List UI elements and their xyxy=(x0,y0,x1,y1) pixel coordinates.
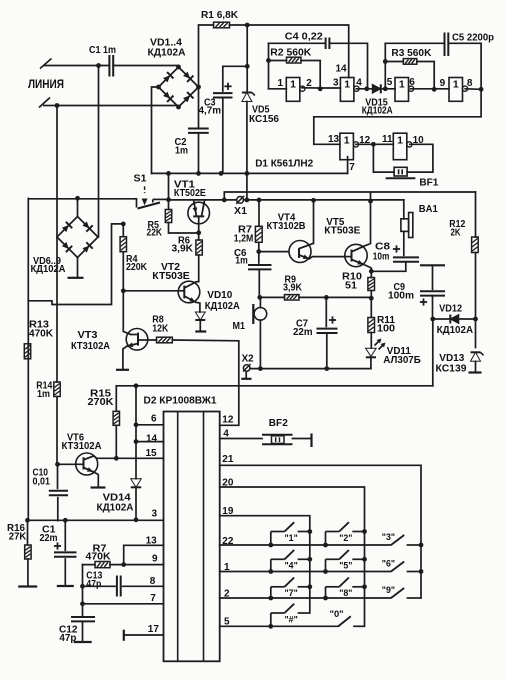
svg-text:1: 1 xyxy=(453,79,459,91)
junction G3 in xyxy=(383,86,388,91)
junction rail/VD5 xyxy=(245,171,250,176)
junction R16 xyxy=(25,518,30,523)
svg-text:6: 6 xyxy=(151,414,157,425)
node bridge top xyxy=(176,65,181,70)
svg-text:BF2: BF2 xyxy=(269,418,288,429)
junction VT1 base/R5/R6 xyxy=(196,230,201,235)
wire: VD13 to ground xyxy=(475,361,477,372)
wire: mic bottom xyxy=(259,320,261,369)
wire: BA1 to C8 xyxy=(403,231,405,255)
svg-text:КТ502Е: КТ502Е xyxy=(174,188,206,199)
wire: to BF1 left xyxy=(373,144,394,172)
svg-text:27K: 27K xyxy=(9,532,27,543)
diode VD15 xyxy=(356,88,372,90)
wire: pin 20 to column 2 xyxy=(220,487,365,626)
wire: to C3 top xyxy=(223,66,247,91)
svg-text:КТ3102А: КТ3102А xyxy=(62,441,103,452)
wire: R7 to VT4 base node xyxy=(258,242,260,251)
key switch 5 row junction xyxy=(323,569,328,574)
BF2 symbol xyxy=(262,435,293,444)
wire: C7 bottom xyxy=(326,333,328,369)
VD6..9 diamond xyxy=(57,217,98,258)
svg-text:D1 К561ЛН2: D1 К561ЛН2 xyxy=(255,159,313,170)
wire: VT2 base xyxy=(123,290,178,292)
svg-text:D2 КР1008ВЖ1: D2 КР1008ВЖ1 xyxy=(144,396,217,407)
svg-text:ЛИНИЯ: ЛИНИЯ xyxy=(28,77,64,91)
svg-text:7: 7 xyxy=(150,593,156,604)
VD11 symbol xyxy=(366,339,386,358)
wire: C5 feedback xyxy=(385,43,481,89)
inverter D1.4 xyxy=(449,78,468,102)
wire: upper line through C1 to bridge top xyxy=(99,66,179,68)
resistor R13 xyxy=(24,344,30,359)
svg-text:VD13: VD13 xyxy=(439,353,464,364)
wire: D1 pin7 ground stub xyxy=(347,157,349,174)
key switch 8 column junction xyxy=(362,584,367,589)
svg-text:470K: 470K xyxy=(86,552,112,563)
junction S1/VT1 xyxy=(166,197,171,202)
diode VD14 xyxy=(131,479,142,488)
wire: into G1 xyxy=(269,88,287,90)
svg-text:11: 11 xyxy=(382,134,393,145)
wire: S1 junction to rail xyxy=(168,173,170,199)
resistor R9 xyxy=(285,295,300,300)
svg-text:"9": "9" xyxy=(382,585,395,595)
wire: R6 to VT2 collector xyxy=(198,233,200,282)
key switch 3 column junction xyxy=(419,543,424,548)
wire: A to BA1 xyxy=(403,200,405,219)
wire: mic bias row xyxy=(260,296,372,298)
wire: G3 input riser xyxy=(384,43,386,89)
terminal bar pin 17 xyxy=(123,630,125,641)
wire: VT4 collector riser xyxy=(313,200,315,243)
svg-text:КТ503Е: КТ503Е xyxy=(152,271,190,282)
wire: bridge2 left node down to R14 xyxy=(56,237,58,382)
key switch # switch xyxy=(271,604,310,627)
svg-text:КД102А: КД102А xyxy=(97,503,135,514)
junction VT4 collector / wire A xyxy=(311,198,316,203)
inverter D1.5 xyxy=(340,133,359,160)
BF1 symbol xyxy=(386,167,416,178)
junction pin3/VD14 xyxy=(134,517,139,522)
inverter D1.3 xyxy=(395,78,414,102)
wire: VD5 to rail xyxy=(246,102,248,174)
junction R4/VT2 base xyxy=(121,288,126,293)
resistor R14 xyxy=(54,382,60,397)
terminal X1 xyxy=(236,196,244,204)
capacitor C9 (electrolytic) xyxy=(420,291,445,305)
svg-text:R1 6,8K: R1 6,8K xyxy=(201,10,239,21)
svg-text:C5 2200p: C5 2200p xyxy=(452,33,494,44)
wire: mic top xyxy=(259,297,261,307)
wire: R4 to VT2 base junction xyxy=(122,252,124,291)
terminal: line input lower xyxy=(39,98,57,108)
wire: rail to wire A riser xyxy=(246,173,248,200)
capacitor C12 xyxy=(71,617,95,621)
svg-text:4,7m: 4,7m xyxy=(199,106,222,117)
svg-text:220K: 220K xyxy=(126,262,148,273)
svg-text:8: 8 xyxy=(467,78,473,89)
key switch 2 switch xyxy=(326,522,365,545)
wire: G1 input riser xyxy=(268,43,270,89)
capacitor C2 xyxy=(188,129,209,133)
junction C4 right / G2 out xyxy=(364,86,369,91)
key switch 7 row junction xyxy=(268,596,273,601)
wire: R16 to ground xyxy=(27,559,29,587)
svg-text:VD10: VD10 xyxy=(207,290,232,301)
wire: G1 out to G2 in xyxy=(302,87,340,89)
svg-text:3,9K: 3,9K xyxy=(172,244,194,255)
svg-text:BA1: BA1 xyxy=(419,204,438,215)
junction upper line xyxy=(96,63,101,68)
key switch 4 switch xyxy=(271,550,310,572)
key switch 7 column junction xyxy=(307,584,312,589)
wire: pin 8 row xyxy=(83,585,164,587)
capacitor C5 xyxy=(445,33,449,57)
resistor R3 xyxy=(403,59,417,65)
svg-text:R3 560K: R3 560K xyxy=(391,48,432,59)
X2 symbol xyxy=(241,364,251,379)
wire: X2 ground row xyxy=(250,368,371,370)
wire: pin 4 to BF2 xyxy=(220,438,262,440)
wire: lower line to bridge bottom... actually to bridge xyxy=(57,105,179,107)
terminal bar above C9 xyxy=(420,264,445,266)
junction pin14 xyxy=(134,439,139,444)
junction R9/R10/R11 xyxy=(369,296,374,301)
M1 symbol xyxy=(253,304,266,324)
junction long wire / D2 left pins riser xyxy=(134,383,139,388)
svg-text:X1: X1 xyxy=(234,206,247,217)
svg-text:17: 17 xyxy=(148,624,160,635)
ground: VT3 emitter xyxy=(116,369,129,371)
wire: pin 2 row xyxy=(220,597,391,599)
key switch 1 row junction xyxy=(268,543,273,548)
wire: pin 1 row xyxy=(220,571,391,573)
svg-text:9: 9 xyxy=(440,78,446,89)
junction R7/C6/VT4 xyxy=(256,249,261,254)
D2 body xyxy=(164,412,220,662)
svg-text:КД102А: КД102А xyxy=(148,48,187,59)
svg-text:1m: 1m xyxy=(175,146,188,157)
wire: S1 left branch to R4 top xyxy=(28,224,123,305)
wire: C12 to ground xyxy=(82,622,84,643)
resistor R7 (470K) xyxy=(95,562,110,568)
wire: C9 bottom to VD12 node xyxy=(432,296,434,319)
svg-text:6: 6 xyxy=(409,77,415,88)
wire: R12 chain xyxy=(475,192,477,319)
diode VD12 xyxy=(450,315,459,324)
svg-text:1: 1 xyxy=(290,79,296,91)
junction pin6 xyxy=(134,422,139,427)
wire: R7 left riser xyxy=(82,565,84,617)
node bridge right xyxy=(196,85,201,90)
S1 symbol xyxy=(137,186,169,208)
svg-text:9: 9 xyxy=(152,554,158,565)
key switch 8 switch xyxy=(326,578,365,599)
wire: bridge left node to common rail xyxy=(152,87,159,173)
svg-text:X2: X2 xyxy=(242,354,254,365)
resistor R16 xyxy=(27,520,29,545)
wire: R8 to D2 pin12 xyxy=(148,340,239,425)
svg-text:0,01: 0,01 xyxy=(33,477,51,488)
svg-text:"4": "4" xyxy=(285,561,298,571)
capacitor C8 (electrolytic) xyxy=(393,245,419,261)
bridge VD1..4 diamond xyxy=(159,67,199,107)
junction R3 left xyxy=(383,59,388,64)
resistor R5 xyxy=(165,210,171,223)
wire: VT3 emitter down xyxy=(123,346,127,370)
key switch 4 row junction xyxy=(268,569,273,574)
resistor R11 xyxy=(368,318,375,333)
wire: R10 to R11 xyxy=(370,291,372,318)
wire: VD6..9 top to S1 wire xyxy=(77,198,79,216)
junction C7 top xyxy=(324,295,329,300)
svg-text:13: 13 xyxy=(328,134,340,145)
wire: VD10 to ground xyxy=(199,320,201,332)
svg-text:"0": "0" xyxy=(330,608,344,619)
svg-text:100: 100 xyxy=(377,324,395,335)
wire: BF1 right to G6 out xyxy=(407,144,433,172)
capacitor C1 xyxy=(109,55,113,77)
wire: R14 to VT6 base node xyxy=(56,397,58,465)
wire: C8 bottom to emitter node xyxy=(371,262,406,272)
wire: R4 line to VT3 collector xyxy=(123,291,130,335)
inverter D1.6 xyxy=(393,133,412,160)
svg-text:АЛ307Б: АЛ307Б xyxy=(383,355,421,366)
wire: VD14 to pin3 wire xyxy=(135,487,137,520)
key 0 switch xyxy=(338,616,364,626)
wire: VT2 collector hook xyxy=(196,281,199,283)
ground: VD10 xyxy=(195,330,206,332)
key switch # row junction xyxy=(268,624,273,629)
wire: pin 21 to column 3 xyxy=(220,465,421,598)
VT4 symbol xyxy=(289,241,314,263)
terminal bar BF2 xyxy=(310,434,312,448)
key switch 2 column junction xyxy=(362,529,367,534)
inverter D1.2 xyxy=(340,78,359,102)
terminal: line input upper xyxy=(40,59,99,69)
svg-text:5: 5 xyxy=(387,77,393,88)
key switch 6 switch xyxy=(391,562,421,572)
capacitor C6 xyxy=(258,252,260,263)
wire: G3 out to G4 in xyxy=(411,88,449,90)
wire A: X1 to BA1 branch xyxy=(224,199,403,201)
wire: R2 wiring xyxy=(269,61,321,89)
node bridge left xyxy=(156,85,161,90)
junction lower line xyxy=(55,103,60,108)
junction emitter/C8 xyxy=(369,269,374,274)
key switch 8 row junction xyxy=(323,596,328,601)
svg-text:3,9K: 3,9K xyxy=(283,283,303,294)
wire: G4 out xyxy=(465,88,481,91)
key switch 1 column junction xyxy=(307,529,312,534)
key switch 2 row junction xyxy=(323,543,328,548)
VT1 symbol xyxy=(188,201,210,233)
svg-text:1: 1 xyxy=(344,79,350,91)
wire: bar to C9 xyxy=(432,265,434,289)
svg-text:1: 1 xyxy=(399,79,405,91)
junction R15/VT6 collector xyxy=(114,456,119,461)
svg-text:"3": "3" xyxy=(382,532,395,542)
wire: pin 13 xyxy=(124,545,164,564)
wire: R11 to VD11 xyxy=(370,333,372,349)
wire B: upper long wire xyxy=(224,192,475,200)
BA1 symbol xyxy=(401,213,413,238)
wire: VD15 to G3 xyxy=(381,88,395,90)
wire: C10 to pin3 wire xyxy=(57,498,59,521)
svg-text:"2": "2" xyxy=(339,533,352,543)
VT3 symbol xyxy=(126,329,148,351)
wire: supply down to C3/VD5 node xyxy=(246,25,248,66)
wire: C3 bottom to rail xyxy=(222,98,224,174)
svg-text:VT3: VT3 xyxy=(78,330,98,341)
svg-text:14: 14 xyxy=(146,434,158,445)
wire: R5 to VT1 base node xyxy=(169,223,199,234)
svg-text:2K: 2K xyxy=(451,228,461,239)
junction pin7 riser xyxy=(80,601,85,606)
svg-text:"6": "6" xyxy=(382,559,395,569)
svg-text:BF1: BF1 xyxy=(419,178,438,189)
VT2 symbol xyxy=(178,281,200,303)
svg-text:47p: 47p xyxy=(86,579,101,590)
junction R4 top xyxy=(121,222,126,227)
wire: to R4 xyxy=(122,224,124,237)
svg-text:8: 8 xyxy=(150,576,156,587)
junction C7 bottom xyxy=(324,366,329,371)
svg-text:C1 1m: C1 1m xyxy=(89,45,116,56)
svg-text:КД102А: КД102А xyxy=(437,325,474,336)
resistor R12 xyxy=(472,237,479,253)
junction VD12/VD13 xyxy=(473,317,478,322)
svg-text:1m: 1m xyxy=(37,389,50,400)
svg-text:M1: M1 xyxy=(233,321,246,332)
ground: VD6..9 bottom xyxy=(68,277,84,279)
ground: C12 xyxy=(74,641,92,643)
wire: pin 14 xyxy=(136,441,164,443)
svg-text:22m: 22m xyxy=(40,533,58,544)
svg-text:КС139: КС139 xyxy=(436,364,467,375)
resistor R8 xyxy=(157,337,173,343)
wire: pin 17 xyxy=(124,634,164,636)
key switch 7 switch xyxy=(271,578,310,599)
svg-text:12: 12 xyxy=(222,415,234,426)
svg-text:3: 3 xyxy=(333,78,339,89)
junction rail/S1 xyxy=(166,171,171,176)
svg-text:1: 1 xyxy=(344,134,350,146)
junction bridge2 top xyxy=(75,196,80,201)
VT5 symbol xyxy=(345,244,367,266)
capacitor C10 xyxy=(57,464,59,488)
junction pin13/pin9 xyxy=(121,562,126,567)
svg-text:КТ503Е: КТ503Е xyxy=(324,226,360,237)
svg-text:3: 3 xyxy=(152,509,158,520)
svg-text:S1: S1 xyxy=(134,174,147,185)
capacitor C13 xyxy=(117,576,121,597)
svg-text:"#": "#" xyxy=(285,614,298,624)
svg-text:"7": "7" xyxy=(285,588,298,598)
svg-text:51: 51 xyxy=(345,281,357,292)
svg-text:1,2М: 1,2М xyxy=(234,234,254,245)
node bridge bottom xyxy=(176,105,181,110)
ground: R16 xyxy=(18,585,37,587)
svg-text:10m: 10m xyxy=(373,252,390,263)
wire: BF2 right xyxy=(293,438,312,440)
wire: pin 3 row xyxy=(28,519,164,521)
svg-text:КС156: КС156 xyxy=(249,114,279,125)
junction G4 out xyxy=(479,87,484,92)
svg-text:15: 15 xyxy=(146,448,158,459)
svg-text:"8": "8" xyxy=(339,588,352,598)
junction C6/M1/R9 xyxy=(257,295,262,300)
ground: C1 22m xyxy=(57,585,74,587)
junction C10/VT6 base xyxy=(55,462,60,467)
junction BF1 left xyxy=(371,142,376,147)
resistor R10 xyxy=(368,278,375,291)
wire: VT6 emitter xyxy=(93,472,98,488)
svg-text:КД102А: КД102А xyxy=(362,106,394,117)
wire: pin 5 row xyxy=(220,625,339,627)
svg-text:"5": "5" xyxy=(339,561,352,571)
ground: VD13 xyxy=(469,371,482,373)
svg-text:22K: 22K xyxy=(147,228,163,239)
ground: VT6 emitter xyxy=(91,486,106,488)
junction rail/C2 xyxy=(196,171,201,176)
wire: upper line vertical to VD6..9 right node xyxy=(98,66,100,238)
junction R2 left xyxy=(266,58,271,63)
svg-text:C4 0,22: C4 0,22 xyxy=(285,32,323,43)
capacitor C7 (electrolytic) xyxy=(325,297,327,326)
wire: R3 wiring xyxy=(385,62,434,90)
inverter D1.1 xyxy=(286,78,305,102)
svg-text:22m: 22m xyxy=(293,327,313,338)
resistor R2 xyxy=(287,57,302,63)
svg-text:КТ3102В: КТ3102В xyxy=(267,221,306,232)
wire: VT4 emitter to VT5 base xyxy=(309,257,345,259)
wire: pin 9 row / R7 470K xyxy=(83,564,164,566)
svg-text:КД102А: КД102А xyxy=(205,301,241,312)
wire: long horizontal net (R15/D2 supply) xyxy=(116,385,433,387)
wire: VT2 emitter to VD10 xyxy=(196,302,200,312)
junction C9/VD12 xyxy=(430,317,435,322)
wire: lower line vertical to VD6..9 left node xyxy=(56,106,58,238)
junction supply/VD5 xyxy=(245,23,250,28)
resistor R1 xyxy=(214,22,230,28)
svg-text:14: 14 xyxy=(336,64,348,75)
zener diode VD13 xyxy=(475,319,477,348)
resistor R15 xyxy=(113,411,119,425)
wire: C6 bottom to mic node xyxy=(258,270,260,298)
wire: pin 22 row xyxy=(220,544,391,546)
junction mic bottom xyxy=(258,366,263,371)
diode VD10 xyxy=(195,312,205,320)
capacitor C1 (22m electrolytic) xyxy=(64,520,66,550)
wire A: S1 to elbow xyxy=(169,199,225,201)
wire: common top rail xyxy=(152,172,348,174)
VT6 symbol xyxy=(58,453,98,475)
svg-text:21: 21 xyxy=(222,454,234,465)
key switch 5 column junction xyxy=(362,557,367,562)
wire: pin 6 xyxy=(136,424,164,426)
svg-text:12K: 12K xyxy=(152,324,169,335)
junction pin8 riser xyxy=(80,584,85,589)
junction wire A / rail riser xyxy=(245,198,250,203)
wire: feedback to G5 xyxy=(314,89,481,144)
junction rail/C3 xyxy=(219,171,224,176)
capacitor C4 xyxy=(326,38,330,50)
key switch 1 switch xyxy=(271,522,310,545)
junction R3 right xyxy=(432,87,437,92)
svg-text:470K: 470K xyxy=(29,329,54,340)
